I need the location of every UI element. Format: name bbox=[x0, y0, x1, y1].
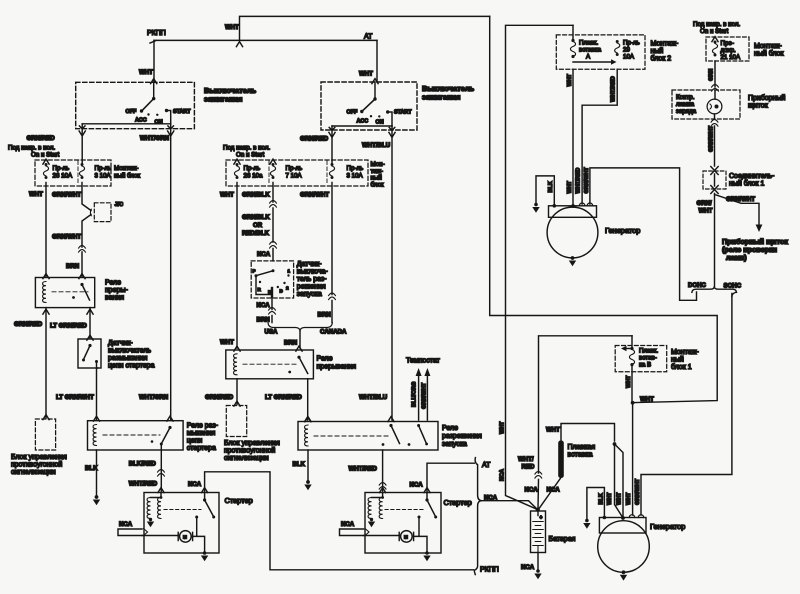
svg-text:вания: вания bbox=[105, 295, 124, 302]
wire twin WHT to generator 2 bbox=[615, 444, 624, 518]
wire BLK gen 1 ground bbox=[536, 176, 554, 206]
contact START bbox=[165, 109, 168, 112]
svg-text:Пре-: Пре- bbox=[721, 40, 734, 47]
svg-text:запуска: запуска bbox=[442, 441, 467, 448]
svg-text:заряда: заряда bbox=[676, 108, 697, 115]
wire main feed x=489.7 down and over to fuse B loop bbox=[490, 16, 718, 402]
svg-text:GRN/RED: GRN/RED bbox=[205, 394, 234, 401]
fuse B internals bbox=[630, 347, 633, 350]
svg-text:BLU/ORG: BLU/ORG bbox=[411, 382, 417, 407]
svg-text:Пр-ль: Пр-ль bbox=[347, 165, 364, 172]
svg-text:разрешения: разрешения bbox=[442, 433, 482, 440]
starter 1 box (Стартер) bbox=[144, 493, 219, 554]
svg-text:Генератор: Генератор bbox=[650, 522, 685, 531]
connector arrow into switch 2 bbox=[372, 79, 378, 84]
wire GRN/RED from switch1 into fuse 3 bbox=[81, 129, 83, 163]
brace DOHC/SOHC bbox=[692, 286, 737, 292]
svg-text:GRN/WHT: GRN/WHT bbox=[52, 192, 81, 199]
connector arrow into switch 1 bbox=[151, 79, 157, 84]
svg-text:Приборный: Приборный bbox=[748, 94, 786, 102]
svg-text:GRN/WHT: GRN/WHT bbox=[584, 167, 590, 194]
svg-text:Контр.: Контр. bbox=[676, 94, 695, 101]
svg-text:RED: RED bbox=[522, 464, 535, 471]
wire AT feed to starter 2 bbox=[427, 463, 474, 492]
fuse Пр-ль 26 10А bbox=[43, 163, 48, 179]
contact ON bbox=[378, 115, 380, 117]
svg-text:M: M bbox=[404, 535, 408, 540]
thermostat arrows bbox=[419, 373, 428, 420]
svg-text:ный: ный bbox=[671, 356, 684, 364]
svg-text:Под напр. в пол.: Под напр. в пол. bbox=[8, 145, 55, 152]
switch 2 lever bbox=[362, 99, 375, 111]
svg-text:Блок управления: Блок управления bbox=[11, 454, 67, 461]
svg-text:GRN/WHT: GRN/WHT bbox=[726, 196, 755, 203]
svg-text:ка В: ка В bbox=[639, 362, 651, 369]
svg-text:BLK: BLK bbox=[293, 461, 306, 468]
svg-text:WHT: WHT bbox=[220, 192, 234, 199]
svg-text:3 10А: 3 10А bbox=[347, 173, 364, 180]
starter 2 switch bbox=[426, 493, 428, 501]
svg-text:Под напр. в пол.: Под напр. в пол. bbox=[223, 145, 270, 152]
connector X bottom bbox=[711, 186, 718, 194]
connector bbox=[712, 85, 719, 92]
svg-text:тель раз-: тель раз- bbox=[297, 276, 327, 283]
fuse Предохр. 21 10А bbox=[712, 41, 717, 57]
svg-text:WHT: WHT bbox=[567, 73, 573, 86]
svg-text:GRN/WHT: GRN/WHT bbox=[52, 234, 81, 241]
entry chevrons реле разрешения bbox=[388, 417, 394, 422]
relay box (Реле разрешения запуска) bbox=[298, 422, 438, 451]
contact ACC bbox=[370, 115, 372, 117]
svg-text:Реле: Реле bbox=[105, 280, 121, 287]
switch 2 output bar bbox=[332, 125, 392, 127]
svg-text:BRN: BRN bbox=[318, 312, 331, 319]
svg-text:START: START bbox=[173, 109, 191, 115]
svg-text:Соединитель-: Соединитель- bbox=[729, 173, 775, 180]
sensor 2 exit bbox=[271, 297, 273, 323]
svg-text:WHT/RED: WHT/RED bbox=[349, 466, 378, 473]
svg-text:WHT/BLU: WHT/BLU bbox=[359, 394, 388, 401]
svg-text:P: P bbox=[253, 269, 256, 274]
svg-text:ON: ON bbox=[376, 120, 384, 126]
svg-text:GRN/: GRN/ bbox=[697, 200, 713, 207]
svg-text:противоугонной: противоугонной bbox=[224, 447, 275, 455]
svg-text:2: 2 bbox=[286, 286, 289, 291]
svg-text:NCA: NCA bbox=[500, 469, 506, 481]
fuse box 1 (Монтажный блок) bbox=[35, 160, 111, 186]
divider bbox=[326, 161, 328, 185]
switch 2 stem bbox=[374, 82, 376, 99]
fuse Пр-ль 3 10А bbox=[79, 163, 84, 179]
contact OFF bbox=[140, 109, 143, 112]
connector bbox=[270, 242, 277, 249]
generator 2 terminals bbox=[603, 516, 607, 520]
wire WHT/GRN long bbox=[170, 129, 172, 420]
generator 2 body bbox=[598, 521, 650, 573]
svg-text:WHT/BLU: WHT/BLU bbox=[362, 142, 391, 149]
contact ACC bbox=[147, 113, 149, 115]
battery bbox=[536, 508, 540, 512]
ground (left relay) bbox=[95, 495, 99, 499]
fuse box (Монтажный блок, Предохр 21) bbox=[706, 37, 749, 61]
lamp box (Приборный щиток) bbox=[672, 90, 740, 119]
svg-text:M: M bbox=[183, 535, 187, 540]
switch B bbox=[417, 424, 420, 427]
svg-text:РКПП: РКПП bbox=[480, 567, 499, 574]
fuse box 2 (Монтажный блок) bbox=[226, 160, 368, 186]
charge warning lamp bbox=[714, 91, 716, 99]
svg-text:NCA: NCA bbox=[547, 487, 561, 494]
svg-text:LT GRN/RED: LT GRN/RED bbox=[50, 323, 87, 330]
svg-text:21 10А: 21 10А bbox=[721, 54, 741, 61]
svg-text:BLK: BLK bbox=[599, 493, 605, 504]
sensor switch bbox=[88, 344, 91, 347]
entry chevron sensor bbox=[87, 335, 93, 340]
connector bbox=[270, 201, 277, 208]
relay 1 dashed link bbox=[52, 291, 88, 293]
svg-text:SOHC: SOHC bbox=[724, 283, 742, 290]
svg-text:NCA: NCA bbox=[521, 564, 535, 571]
sensor box (Датчик-выключатель размыкания цепи стартера) bbox=[78, 339, 101, 368]
entry chevron starter 1 bbox=[158, 488, 164, 493]
wire GRN/WHT gen 1 up to DOHC loop bbox=[590, 168, 697, 300]
svg-text:WHT/RED: WHT/RED bbox=[576, 168, 582, 194]
svg-text:вставка: вставка bbox=[579, 47, 602, 54]
connector on BRN wire bbox=[79, 246, 86, 253]
svg-text:WHT/GRN: WHT/GRN bbox=[139, 394, 168, 401]
starter 1 coil ground bbox=[149, 518, 152, 521]
svg-text:On и Start: On и Start bbox=[700, 28, 728, 35]
svg-text:сигнализации: сигнализации bbox=[224, 455, 269, 462]
svg-text:вставка: вставка bbox=[568, 452, 593, 459]
svg-text:29: 29 bbox=[623, 47, 630, 54]
fusible link Плавкая вставка bbox=[561, 424, 615, 442]
entry chevrons relay размыкания bbox=[93, 416, 99, 421]
fuse box A (Монтажный блок 2) bbox=[556, 35, 645, 69]
starter 2 bottom ground bbox=[425, 551, 429, 555]
wire battery feed corner (x=538.5) bbox=[538, 336, 632, 510]
svg-text:26 10А: 26 10А bbox=[53, 173, 73, 180]
ignition switch 2 box (Выключатель зажигания) bbox=[321, 82, 417, 130]
svg-text:Монтаж-: Монтаж- bbox=[754, 43, 782, 50]
svg-text:AT: AT bbox=[364, 34, 373, 41]
svg-text:GRN/WHT: GRN/WHT bbox=[635, 478, 641, 505]
wire top bus y=40 bbox=[154, 39, 377, 41]
svg-text:LT GRN/RED: LT GRN/RED bbox=[265, 394, 302, 401]
svg-text:Монтаж-: Монтаж- bbox=[671, 349, 699, 356]
svg-text:BRN: BRN bbox=[66, 263, 79, 270]
link A bbox=[572, 25, 574, 40]
dashed link bbox=[314, 435, 388, 437]
junction dot battery/generator feed bbox=[613, 442, 617, 446]
wire fuse A feed (x=505.5) bbox=[506, 25, 574, 509]
relay 2 entry chevrons bbox=[234, 346, 240, 351]
J/C tap arc bbox=[89, 209, 92, 216]
svg-text:стартера: стартера bbox=[187, 445, 216, 452]
svg-text:Под напр. в пол.: Под напр. в пол. bbox=[693, 21, 740, 28]
svg-text:цепи: цепи bbox=[187, 438, 203, 445]
svg-text:GRN/WHT: GRN/WHT bbox=[300, 192, 329, 199]
svg-text:BLK: BLK bbox=[85, 465, 98, 472]
svg-text:GRN/BLK: GRN/BLK bbox=[242, 214, 270, 221]
svg-text:+: + bbox=[540, 515, 543, 521]
fuse Пр-ль 26 10а bbox=[234, 163, 239, 179]
svg-text:Пр-ль: Пр-ль bbox=[286, 165, 303, 172]
switch 1 START link bbox=[167, 111, 171, 124]
svg-text:выключатель: выключатель bbox=[108, 348, 151, 355]
svg-text:WHT: WHT bbox=[220, 339, 234, 346]
starter 1 contact bbox=[195, 516, 198, 519]
svg-text:NCA: NCA bbox=[525, 487, 539, 494]
wire WHT link A to generator 1 bbox=[572, 69, 574, 206]
ground (gen 1 BLK) bbox=[534, 203, 538, 207]
svg-text:WHT/RED: WHT/RED bbox=[611, 76, 617, 102]
starter 2 coil ground bbox=[370, 518, 373, 521]
wire РКПП lead bbox=[150, 41, 156, 44]
svg-text:Стартер: Стартер bbox=[225, 496, 253, 505]
svg-text:зажигания: зажигания bbox=[422, 93, 461, 102]
svg-text:WHT: WHT bbox=[500, 421, 506, 434]
svg-text:Пр-ль: Пр-ль bbox=[95, 165, 112, 172]
bar end arrows bbox=[329, 126, 335, 130]
svg-text:встав-: встав- bbox=[639, 355, 657, 362]
svg-text:1: 1 bbox=[288, 269, 291, 274]
svg-text:Монтаж-: Монтаж- bbox=[651, 41, 679, 48]
entry chevron alarm block bbox=[43, 415, 49, 420]
svg-text:26 10а: 26 10а bbox=[244, 173, 263, 180]
wire fuse B down bbox=[631, 365, 633, 403]
starter 1 internal wires bbox=[142, 536, 205, 553]
supply chevron bbox=[43, 159, 49, 164]
svg-text:ный блок: ный блок bbox=[754, 50, 785, 58]
wire WHT fuse26 to relay 1 bbox=[45, 183, 47, 277]
svg-text:WHT: WHT bbox=[640, 396, 654, 403]
svg-text:WHT: WHT bbox=[567, 180, 573, 193]
svg-text:WHT: WHT bbox=[29, 191, 43, 198]
divider bbox=[268, 161, 270, 185]
svg-text:Темпостат: Темпостат bbox=[406, 358, 441, 365]
fuse B junction dot bbox=[631, 401, 635, 405]
switch A bbox=[389, 424, 392, 427]
svg-text:NCA: NCA bbox=[257, 302, 271, 309]
svg-text:Монтаж-: Монтаж- bbox=[114, 165, 139, 172]
svg-text:Плавкая: Плавкая bbox=[568, 444, 596, 451]
starter 1 motor M bbox=[180, 531, 192, 543]
svg-text:сигнализации: сигнализации bbox=[11, 469, 56, 476]
svg-text:Пр-ль: Пр-ль bbox=[53, 165, 70, 172]
svg-text:J/C: J/C bbox=[115, 202, 124, 208]
connector chevrons below switch 2 bbox=[329, 132, 335, 137]
fuse box A internal arrow bbox=[573, 61, 612, 63]
svg-text:дохр.: дохр. bbox=[721, 47, 737, 54]
wire branch to panel relay bbox=[715, 195, 759, 227]
switch 1 pivot bbox=[152, 97, 155, 100]
wire link to battery bbox=[539, 478, 562, 510]
svg-text:блок 2: блок 2 bbox=[651, 55, 672, 63]
svg-text:WHT: WHT bbox=[616, 492, 622, 505]
svg-text:OFF: OFF bbox=[126, 109, 137, 115]
wire BLK/RED / WHT/RED to starter 1 bbox=[160, 444, 162, 491]
junction chevron at top bus bbox=[236, 42, 242, 47]
svg-text:RED/BLK: RED/BLK bbox=[242, 230, 270, 237]
relay 1 switch bbox=[80, 283, 83, 286]
connector bbox=[535, 472, 542, 479]
generator 2 box bbox=[599, 518, 646, 534]
contact START bbox=[386, 110, 389, 113]
svg-text:GRN/RED: GRN/RED bbox=[27, 135, 56, 142]
brace AT/РКПП bbox=[474, 458, 482, 575]
switch 1 output bar bbox=[82, 123, 171, 125]
connector bbox=[711, 120, 718, 127]
wire GRN/RED to alarm block bbox=[45, 308, 47, 419]
svg-text:Батарея: Батарея bbox=[549, 536, 576, 543]
svg-text:щиток: щиток bbox=[748, 103, 769, 110]
ground (gen 2 BLK) bbox=[585, 519, 589, 523]
svg-text:GRN/RED: GRN/RED bbox=[14, 321, 43, 328]
starter 1 switch bbox=[204, 493, 206, 501]
wire GRN/WHT down bbox=[714, 126, 716, 166]
relay 1 entry chevrons bbox=[43, 274, 49, 279]
coil bbox=[305, 425, 308, 446]
connector X top bbox=[711, 167, 718, 175]
starter 2 box (Стартер) bbox=[365, 493, 441, 554]
starter 1 coils bbox=[151, 493, 162, 498]
svg-text:BLK: BLK bbox=[548, 181, 554, 192]
svg-text:WHT: WHT bbox=[359, 71, 373, 78]
svg-text:WHT/GRN: WHT/GRN bbox=[140, 135, 169, 142]
relay 1 coil bbox=[43, 282, 46, 303]
switch 2 START link bbox=[388, 112, 392, 126]
svg-text:ламп): ламп) bbox=[726, 253, 747, 262]
svg-text:мыкания: мыкания bbox=[187, 430, 216, 437]
svg-text:запуска: запуска bbox=[297, 291, 322, 298]
svg-text:NCA: NCA bbox=[410, 482, 424, 489]
wire BLK to ground bbox=[96, 450, 98, 496]
svg-text:WHT: WHT bbox=[546, 427, 560, 434]
svg-text:выключа-: выключа- bbox=[297, 269, 329, 276]
svg-text:зажигания: зажигания bbox=[204, 95, 243, 104]
svg-text:Генератор: Генератор bbox=[605, 226, 640, 235]
svg-text:WHT: WHT bbox=[225, 24, 239, 31]
wire BLK ground loop gen 2 bbox=[587, 488, 605, 521]
svg-text:ACC: ACC bbox=[357, 118, 369, 124]
fuse 29 bbox=[615, 40, 620, 56]
svg-text:Реле раз-: Реле раз- bbox=[187, 423, 219, 430]
starter 2 contact bbox=[418, 516, 421, 519]
fuse B wire in bbox=[631, 336, 633, 349]
wire fuse B to generator 2 bbox=[632, 403, 634, 515]
wire WHT/BLU long bbox=[391, 130, 393, 420]
fuse box B (Монтажный блок 1) bbox=[615, 346, 667, 372]
svg-text:WHT: WHT bbox=[139, 69, 153, 76]
wire NCA loop (starter1 to РКПП brace) bbox=[205, 472, 474, 570]
svg-text:WHT/: WHT/ bbox=[518, 456, 534, 463]
connector bbox=[158, 470, 165, 477]
wire BLK to ground bbox=[307, 450, 309, 481]
svg-text:WHT: WHT bbox=[607, 492, 613, 505]
starter 2 motor M bbox=[401, 531, 413, 543]
supply chevrons bbox=[234, 159, 240, 164]
svg-text:NCA: NCA bbox=[341, 521, 355, 528]
svg-text:Датчик-: Датчик- bbox=[108, 340, 133, 347]
wire LT GRN/RED to sensor bbox=[89, 308, 91, 339]
svg-text:GRN: GRN bbox=[709, 69, 715, 81]
relay box (Реле размыкания цепи стартера) bbox=[88, 421, 184, 450]
starter 2 coils bbox=[372, 493, 383, 498]
svg-text:OR: OR bbox=[253, 222, 263, 229]
svg-text:BRN: BRN bbox=[284, 340, 297, 347]
svg-text:решения: решения bbox=[297, 284, 326, 291]
generator 2 ground bbox=[622, 570, 626, 574]
starter 1 bottom ground bbox=[203, 551, 207, 555]
svg-text:On и Start: On и Start bbox=[236, 152, 264, 159]
starter 2 internal wires bbox=[364, 536, 428, 553]
svg-text:NCA: NCA bbox=[257, 251, 271, 258]
alarm block box left (Блок управления противоугонной сигнализации) bbox=[35, 419, 55, 450]
dashed link bbox=[103, 434, 160, 436]
svg-text:преры-: преры- bbox=[105, 287, 129, 294]
svg-text:размыкания: размыкания bbox=[108, 355, 148, 362]
fuse Пр-ль 7 10А bbox=[270, 163, 275, 179]
svg-text:Пр-ль: Пр-ль bbox=[623, 40, 640, 47]
wire NCA brace to battery bbox=[482, 501, 538, 510]
svg-text:цепи стартера: цепи стартера bbox=[108, 363, 155, 370]
svg-text:WHT/RED: WHT/RED bbox=[129, 481, 158, 488]
generator 1 terminals bbox=[553, 204, 557, 208]
relay 2 switch bbox=[297, 356, 300, 359]
relay 2 dashed link bbox=[243, 363, 298, 365]
svg-text:Реле: Реле bbox=[442, 425, 458, 432]
svg-text:Реле: Реле bbox=[317, 356, 333, 363]
connector chevrons below switch 1 bbox=[79, 131, 85, 136]
svg-text:Плавк.: Плавк. bbox=[639, 348, 658, 355]
wire down to DOHC/SOHC brace bbox=[714, 194, 716, 287]
generator 1 box bbox=[549, 206, 597, 218]
alarm block box middle bbox=[226, 406, 246, 437]
relay 2 box (Реле прерывания) bbox=[226, 350, 314, 379]
contact OFF bbox=[360, 110, 363, 113]
wire WHT/RED to starter 2 bbox=[382, 450, 384, 491]
wire GRN/BLK chain to sensor 2 bbox=[272, 183, 274, 261]
starter 1 dashed link bbox=[164, 509, 201, 511]
contact ON bbox=[156, 114, 158, 116]
svg-text:РКПП: РКПП bbox=[147, 30, 166, 37]
relay 2 coil bbox=[234, 354, 237, 375]
wire BRN merged bbox=[299, 331, 301, 348]
wire riser to upper bus bbox=[240, 16, 490, 40]
svg-text:AT: AT bbox=[482, 462, 491, 469]
svg-text:Стартер: Стартер bbox=[444, 498, 472, 507]
svg-text:блок: блок bbox=[371, 181, 384, 188]
svg-text:GRN/BLK: GRN/BLK bbox=[242, 192, 270, 199]
generator 1 ground bbox=[571, 256, 575, 260]
svg-text:On и Start: On и Start bbox=[31, 152, 59, 159]
battery ground bbox=[537, 553, 539, 571]
connector block box (Соединительный блок 1) bbox=[703, 171, 726, 189]
wire SOHC to generator 2 GRN/WHT bbox=[641, 294, 732, 516]
J/C box bbox=[94, 203, 111, 222]
relay 2 exits bbox=[236, 379, 238, 405]
starter 2 dashed link bbox=[385, 509, 423, 511]
svg-text:LT GRN/WHT: LT GRN/WHT bbox=[56, 394, 94, 401]
svg-text:7 10А: 7 10А bbox=[286, 173, 303, 180]
merge brace USA/CANADA bbox=[268, 323, 332, 331]
fuse Пр-ль 3 10А bbox=[329, 163, 334, 179]
switch bbox=[168, 426, 171, 429]
relay 1 exit chevrons bbox=[43, 309, 49, 314]
sensor 2 box (Датчик-выключатель разрешения запуска) bbox=[251, 261, 293, 298]
svg-text:Плавк.: Плавк. bbox=[579, 40, 598, 47]
